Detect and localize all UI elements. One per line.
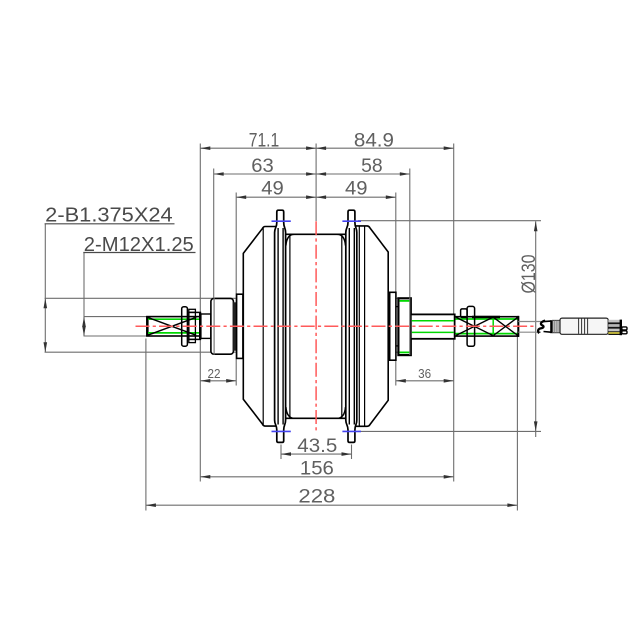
svg-text:58: 58 (361, 156, 383, 177)
svg-text:63: 63 (251, 156, 274, 177)
svg-text:84.9: 84.9 (354, 131, 394, 152)
svg-text:2-B1.375X24: 2-B1.375X24 (45, 204, 173, 226)
svg-text:Ø130: Ø130 (519, 255, 540, 294)
svg-text:71.1: 71.1 (249, 131, 280, 152)
svg-text:36: 36 (418, 366, 431, 381)
svg-text:2-M12X1.25: 2-M12X1.25 (84, 234, 194, 256)
svg-text:43.5: 43.5 (297, 436, 337, 457)
svg-text:49: 49 (345, 179, 368, 200)
svg-text:228: 228 (298, 487, 335, 508)
svg-text:22: 22 (208, 366, 221, 381)
svg-text:156: 156 (300, 458, 334, 479)
svg-text:49: 49 (261, 179, 284, 200)
